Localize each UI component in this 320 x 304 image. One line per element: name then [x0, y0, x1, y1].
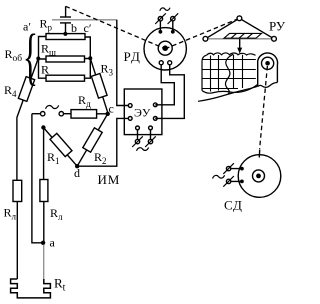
chart roll torn edge: [258, 83, 278, 88]
resistor R4: [17, 59, 38, 118]
wire Rд to node c: [97, 113, 108, 115]
РД supply switch blades: [155, 13, 178, 24]
ЭУ terminal bottom 1: [136, 126, 140, 130]
lever РУ frame: [205, 18, 274, 39]
dashed link roll to СД: [260, 66, 268, 149]
resistor R1: [43, 128, 77, 167]
chart paper sheet: [207, 53, 256, 55]
svg-text:ЭУ: ЭУ: [134, 106, 151, 120]
РД winding terminal left: [159, 30, 163, 34]
AC symbol at СД switch: [213, 175, 225, 178]
chart paper torn bottom edge: [202, 85, 258, 94]
СД shaft stub: [258, 150, 260, 158]
resistor Rр (slide-wire): [46, 34, 85, 40]
РД output terminal right: [168, 61, 172, 65]
wire left bus a': [39, 37, 47, 79]
svg-text:b: b: [71, 21, 77, 35]
СД supply wires: [231, 169, 242, 182]
РД rotor ring: [158, 41, 172, 55]
AC symbol at ЭУ switch: [137, 148, 149, 151]
svg-text:R: R: [41, 63, 49, 77]
dashed link РД to РУ: [165, 18, 239, 49]
chart recorded trace: [225, 54, 233, 94]
СД supply switch contacts: [226, 166, 230, 170]
wire right bus c': [85, 37, 91, 78]
СД winding terminal bottom: [240, 180, 244, 184]
node a' (left bus junction): [36, 57, 40, 61]
РД winding terminal right: [171, 30, 175, 34]
resistor R2: [77, 114, 108, 166]
amplifier ЭУ box: [124, 89, 162, 135]
svg-text:c: c: [109, 102, 114, 116]
svg-text:a: a: [50, 236, 56, 250]
node b: [63, 32, 67, 36]
svg-text:{: {: [23, 21, 38, 92]
wire right lead down from R1 junction: [43, 128, 45, 180]
wire from top rail down to amplifier input 1: [117, 20, 130, 106]
svg-text:ИМ: ИМ: [98, 172, 121, 187]
node d: [75, 164, 79, 168]
resistor Rл (left lead): [13, 180, 22, 201]
node c' (right bus junction): [88, 56, 92, 60]
switch contact pair for Rд branch: [32, 112, 71, 116]
motor РД body: [144, 28, 186, 70]
resistor R: [46, 75, 85, 81]
РУ pivot right: [272, 36, 277, 41]
РД supply wires: [160, 21, 172, 32]
node a: [41, 241, 45, 245]
wire middle lead from switch down to node a: [32, 114, 43, 243]
AC symbol at Rд switch: [46, 105, 59, 109]
РУ fixed support (hatched): [224, 33, 262, 38]
svg-text:СД: СД: [224, 198, 243, 213]
resistor Rш: [46, 56, 85, 62]
wire from node d to amplifier input 2: [77, 118, 130, 166]
resistor Rл (right lead): [40, 180, 48, 202]
chart grid horizontal lines: [203, 60, 256, 89]
svg-text:d: d: [74, 166, 80, 180]
motor СД body: [238, 155, 281, 198]
wire node a to Rt (gray): [43, 245, 45, 280]
wire left lead to Rt: [16, 202, 18, 280]
wiper contact (lower brush) to node b: [60, 23, 71, 34]
ЭУ supply switch contacts: [135, 139, 139, 143]
brace Rоб: [23, 21, 38, 92]
ЭУ terminal left 1: [128, 104, 132, 108]
ЭУ supply switch wires: [138, 130, 151, 140]
thermometer Rt: [11, 279, 51, 298]
wire left lead down from R4: [16, 118, 18, 181]
node (R1 top junction): [41, 125, 45, 129]
arrow РУ to chart: [239, 39, 241, 49]
wire ЭУ right 2 to РД right terminal: [155, 65, 184, 119]
chart grid vertical lines: [211, 55, 243, 92]
СД rotor center: [256, 174, 261, 179]
node c: [106, 112, 110, 116]
svg-text:РУ: РУ: [269, 19, 286, 34]
wire ЭУ right 1 to РД left terminal: [155, 65, 174, 105]
РД supply switch contacts: [158, 17, 162, 21]
resistor Rд: [71, 110, 97, 119]
wire right lead to node a: [43, 202, 45, 243]
ЭУ terminal left 2: [128, 117, 132, 121]
РУ pivot left: [203, 36, 208, 41]
dashed link wiper to РД: [66, 6, 166, 49]
ЭУ supply switch blades: [132, 136, 156, 147]
СД winding terminal top: [240, 167, 244, 171]
wire top rail (gray) from slide-wire wiper to amplifier input: [52, 19, 117, 21]
svg-text:РД: РД: [124, 49, 142, 64]
svg-text:c′: c′: [84, 21, 92, 35]
СД supply switch blades: [223, 163, 234, 187]
ЭУ terminal bottom 2: [149, 126, 153, 130]
wiper contact (upper brush) of slide-wire Rр: [60, 6, 71, 17]
chart roll outer: [258, 61, 278, 87]
РУ base (gray): [205, 38, 274, 40]
РД rotor center: [162, 45, 168, 51]
ЭУ terminal right 1: [153, 103, 157, 107]
ЭУ terminal right 2: [153, 117, 157, 121]
resistor R3: [90, 58, 108, 113]
AC symbol at РД switch: [160, 8, 170, 11]
РУ pivot top: [237, 16, 242, 21]
chart roll center: [265, 61, 270, 66]
РД output terminal left: [159, 61, 163, 65]
СД rotor ring: [253, 170, 265, 182]
chart roll ring: [262, 57, 274, 69]
